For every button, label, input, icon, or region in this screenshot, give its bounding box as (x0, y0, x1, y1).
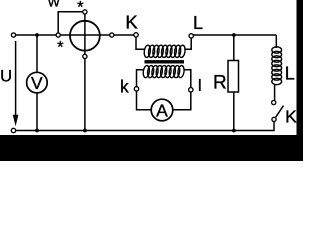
wire down to inductor L (275, 35, 277, 48)
resistor R (228, 61, 239, 93)
wire top rail right (L terminal to inductor) (194, 34, 277, 36)
svg-text:k: k (120, 77, 129, 97)
wire secondary coil left lead to k terminal (137, 70, 144, 87)
terminal L (189, 34, 193, 38)
current transformer T1 secondary winding (142, 65, 184, 78)
wire W right terminal to K terminal (112, 34, 134, 36)
wire secondary coil right lead to l terminal (184, 70, 191, 88)
wire ammeter to l terminal (173, 92, 191, 110)
wire wattmeter current coil through (58, 34, 112, 36)
terminal k (134, 87, 138, 91)
switch contact bottom (272, 117, 276, 121)
current transformer T1 core (145, 60, 185, 63)
wattmeter W1 (70, 21, 100, 51)
wire top rail left (16, 34, 59, 36)
terminal input top left (11, 33, 15, 37)
svg-text:K: K (285, 106, 297, 126)
junction J3 (bottom V) (35, 129, 39, 133)
junction J5 (bottom R) (232, 129, 236, 133)
current transformer T1 primary winding (143, 45, 185, 58)
svg-text:L: L (193, 13, 203, 33)
terminal W left (56, 33, 60, 37)
terminal W top (83, 10, 87, 14)
wire K terminal down to primary coil (136, 37, 145, 49)
wire R branch top (233, 35, 235, 61)
svg-text:K: K (125, 11, 138, 32)
svg-text:L: L (285, 64, 295, 84)
wire R branch bottom (233, 92, 235, 131)
terminal input bottom left (11, 128, 15, 132)
voltage arrow U (15, 41, 17, 120)
terminal K (134, 33, 138, 37)
voltmeter V1 (27, 72, 48, 93)
wire primary coil to L terminal (184, 38, 191, 49)
svg-text:*: * (57, 39, 64, 57)
junction J1 (35, 33, 39, 37)
wire junction J1 to voltmeter (36, 35, 38, 72)
black border bottom (0, 135, 303, 161)
svg-text:U: U (0, 68, 12, 86)
terminal W bottom (83, 54, 87, 58)
inductor L (load) (272, 47, 282, 85)
terminal W right (110, 33, 114, 37)
svg-text:A: A (156, 100, 168, 120)
wire inductor L to switch (274, 85, 276, 101)
black border right (297, 0, 304, 161)
wire k terminal to ammeter (137, 91, 152, 110)
wire W bottom terminal to bottom rail (84, 59, 86, 131)
svg-text:R: R (213, 73, 227, 94)
junction J4 (bottom W) (83, 129, 87, 133)
svg-text:l: l (198, 76, 202, 95)
svg-text:V: V (31, 73, 43, 93)
ammeter A1 (151, 99, 173, 121)
svg-text:W: W (48, 0, 61, 10)
wire W voltage coil vertical (84, 14, 86, 54)
wire W voltage loop (58, 12, 82, 33)
switch contact top (272, 100, 276, 104)
switch K (276, 106, 284, 118)
junction J2 (R top) (232, 33, 236, 37)
terminal l (189, 88, 193, 92)
wire bottom rail (16, 121, 274, 130)
wire voltmeter to bottom rail (36, 93, 38, 131)
